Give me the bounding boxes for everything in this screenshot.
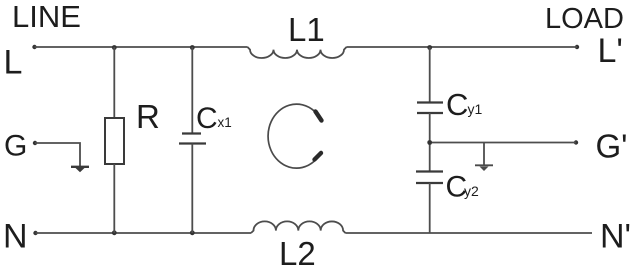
capacitor Cy2 [416,143,479,234]
resistor R [105,47,160,233]
svg-text:G: G [4,130,27,163]
svg-text:y1: y1 [468,101,483,117]
wire G to ground [35,143,80,166]
svg-text:C: C [446,87,468,122]
svg-text:R: R [136,98,160,135]
node top rail / Cy branch [427,45,432,50]
ground right [475,143,493,172]
svg-text:y2: y2 [464,183,479,199]
svg-text:x1: x1 [218,115,232,130]
svg-text:L': L' [598,32,623,70]
wire G' rail [427,140,576,145]
svg-text:C: C [196,102,218,135]
svg-text:L1: L1 [288,11,325,48]
wire bottom rail right [345,232,592,234]
node bottom rail / R branch [112,230,117,235]
svg-text:N': N' [600,218,631,256]
inductor L2 [251,221,345,269]
terminal L' [575,32,623,70]
terminal N [3,218,38,256]
terminal G [4,130,37,163]
terminal L [4,44,37,82]
node bottom rail / Cx1 branch [190,230,195,235]
svg-text:L2: L2 [279,235,316,269]
svg-text:LINE: LINE [12,0,81,34]
node top rail / R branch [112,45,117,50]
capacitor Cy1 [417,47,483,143]
wire top rail right [346,46,577,48]
svg-text:G': G' [596,128,628,165]
capacitor Cx1 [179,47,232,233]
svg-text:N: N [3,218,28,256]
common-mode flux arrow [268,104,322,168]
ground left [71,167,89,173]
svg-text:L: L [4,44,23,82]
wire bottom rail left [36,232,252,234]
node top rail / Cx1 branch [190,45,195,50]
inductor L1 [248,11,347,58]
svg-text:LOAD: LOAD [545,3,624,35]
wire top rail left [35,46,248,48]
terminal G' [574,128,628,165]
